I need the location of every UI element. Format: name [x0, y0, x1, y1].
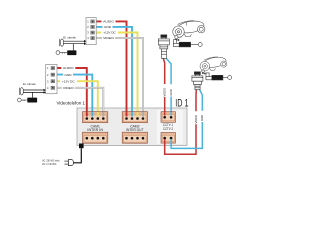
- station 2 wire labels: [60, 66, 77, 90]
- svg-text:AUDIO: AUDIO: [103, 20, 114, 24]
- svg-text:VIDEO: VIDEO: [163, 87, 167, 97]
- svg-text:12V: 12V: [181, 44, 186, 47]
- connector CAM1 (bottom spare): [83, 132, 108, 143]
- door station 2 wire GND (blue): [57, 75, 92, 119]
- el. zamek 1 wire arrowheads: [84, 40, 86, 43]
- CCTV1 gnd wire (blue) from BNC1: [166, 58, 171, 84]
- door station 1 terminal block: [86, 18, 96, 45]
- CCTV1 video wire (red) from BNC1: [163, 58, 165, 84]
- connector CAM2 INTER OUT (top): [122, 112, 147, 123]
- el. zamek 1 lock body: [67, 50, 76, 55]
- DC plug 2: [206, 73, 232, 80]
- svg-text:GND: GND: [104, 25, 112, 29]
- svg-text:12V: 12V: [214, 77, 219, 80]
- svg-text:VIDEO: VIDEO: [63, 86, 74, 90]
- station 1 wire labels: [101, 20, 118, 41]
- BNC plug 2: [192, 72, 203, 90]
- label CAM1 INTER IN: [87, 124, 103, 132]
- door station 1 wire AUDIO (red): [96, 21, 126, 118]
- door station 2 wire AUDIO (red): [57, 68, 87, 119]
- door station 2 wire VIDEO (white/gray): [57, 88, 103, 119]
- svg-text:VIDEO: VIDEO: [194, 114, 198, 124]
- label CCTV 1 / CCTV 2: [163, 123, 173, 131]
- svg-text:zámek: zámek: [68, 53, 76, 55]
- power label: [42, 159, 60, 167]
- CCTV2 loop wire video (red): [165, 124, 196, 154]
- svg-text:GND: GND: [200, 115, 204, 121]
- svg-text:AUDIO: AUDIO: [63, 66, 74, 70]
- camera 2 pigtail: [202, 70, 206, 74]
- svg-text:CCTV 2: CCTV 2: [163, 127, 173, 131]
- wire stubs into CAM1 connector: [87, 112, 104, 116]
- svg-text:zámek: zámek: [28, 101, 36, 103]
- camera 1 pigtail: [175, 36, 182, 41]
- power cord: [73, 148, 81, 163]
- DC plug 1: [173, 40, 202, 47]
- el. zamek 2 wires: [23, 90, 44, 98]
- svg-text:VIDEO: VIDEO: [103, 36, 114, 40]
- power terminal on monitor: [79, 144, 84, 149]
- el. zamek 1 wires: [63, 41, 84, 50]
- el. zamek 2 wire arrowheads: [44, 89, 46, 92]
- svg-text:El. zámek: El. zámek: [63, 35, 76, 39]
- BNC plug 1: [158, 35, 169, 59]
- svg-text:+12V DC: +12V DC: [103, 31, 116, 35]
- door station 2 terminal block: [46, 65, 57, 94]
- el. zamek 2 key: [17, 98, 21, 102]
- svg-text:ID 1: ID 1: [175, 97, 188, 109]
- camera 1: [173, 19, 205, 37]
- connector CAM2 (bottom spare): [122, 132, 147, 143]
- camera 2: [200, 56, 227, 71]
- CCTV2 loop wire gnd (blue): [171, 122, 202, 148]
- el. zamek 2 strike plate: [20, 88, 23, 95]
- power plug: [64, 160, 73, 166]
- connector CCTV 2: [161, 133, 176, 144]
- el. zamek 1 key: [56, 51, 60, 55]
- svg-text:INTER IN: INTER IN: [87, 128, 103, 132]
- wire stubs into CAM2 connector: [127, 112, 144, 116]
- svg-text:Videotelefon 1: Videotelefon 1: [57, 101, 86, 106]
- connector CCTV 1: [161, 112, 176, 123]
- svg-text:GND: GND: [65, 73, 73, 77]
- door station 1 wire GND (blue): [96, 27, 132, 119]
- wire stubs into CCTV connectors: [165, 112, 171, 144]
- el. zamek 1 strike plate: [60, 39, 63, 46]
- connector CAM1 INTER IN (top): [83, 112, 108, 123]
- CCTV sub-panel: [157, 110, 184, 145]
- svg-text:+12V DC: +12V DC: [62, 79, 75, 83]
- label CAM2 INTER OUT: [126, 124, 143, 132]
- door station 2 wire +12V DC (yellow): [57, 81, 98, 118]
- monitor unit box (Videotelefon 1): [77, 108, 187, 146]
- svg-text:DC: 17-36 VDC: DC: 17-36 VDC: [42, 162, 56, 166]
- svg-text:GND: GND: [169, 89, 173, 95]
- svg-text:INTER OUT: INTER OUT: [126, 128, 143, 132]
- el. zamek 2 lock body: [27, 98, 37, 103]
- svg-text:El. zámek: El. zámek: [23, 82, 36, 86]
- door station 1 wire +12V DC (yellow): [96, 33, 137, 119]
- door station 1 wire VIDEO (white/gray): [96, 38, 143, 119]
